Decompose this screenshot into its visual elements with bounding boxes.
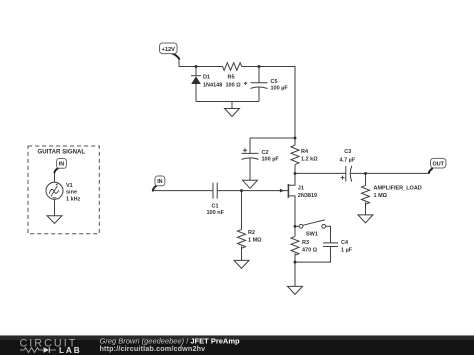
svg-text:4.7 µF: 4.7 µF: [340, 157, 356, 163]
svg-text:100 µF: 100 µF: [262, 157, 280, 163]
svg-text:D1: D1: [203, 75, 210, 81]
svg-text:V1: V1: [66, 183, 73, 189]
svg-text:http://circuitlab.com/cdwn2hv: http://circuitlab.com/cdwn2hv: [100, 344, 206, 353]
svg-text:100 Ω: 100 Ω: [226, 82, 242, 88]
svg-text:R3: R3: [302, 240, 309, 246]
svg-text:AMPLIFIER_LOAD: AMPLIFIER_LOAD: [374, 185, 422, 191]
svg-text:OUT: OUT: [433, 162, 445, 168]
svg-text:100 µF: 100 µF: [271, 86, 289, 92]
svg-text:IN: IN: [59, 162, 64, 168]
svg-text:1 MΩ: 1 MΩ: [248, 238, 262, 244]
svg-text:1 µF: 1 µF: [341, 248, 353, 254]
svg-text:J1: J1: [298, 186, 304, 192]
svg-text:SW1: SW1: [306, 231, 318, 237]
svg-text:+12V: +12V: [162, 47, 175, 53]
svg-text:LAB: LAB: [59, 346, 82, 355]
svg-text:R4: R4: [301, 149, 309, 155]
svg-text:IN: IN: [157, 179, 162, 185]
svg-text:470 Ω: 470 Ω: [302, 248, 318, 254]
svg-text:C3: C3: [344, 149, 351, 155]
svg-text:C2: C2: [262, 150, 269, 156]
svg-text:C1: C1: [212, 204, 219, 210]
svg-text:1 MΩ: 1 MΩ: [374, 193, 388, 199]
svg-text:1.2 kΩ: 1.2 kΩ: [301, 157, 318, 163]
svg-text:100 nF: 100 nF: [207, 210, 225, 216]
svg-text:R5: R5: [228, 75, 235, 81]
svg-text:1N4148: 1N4148: [203, 82, 222, 88]
svg-text:C5: C5: [271, 79, 278, 85]
svg-text:R2: R2: [248, 230, 255, 236]
svg-text:C4: C4: [341, 240, 349, 246]
svg-text:sine: sine: [66, 190, 77, 196]
svg-text:2N3819: 2N3819: [298, 193, 317, 199]
svg-text:GUITAR SIGNAL: GUITAR SIGNAL: [38, 149, 86, 156]
svg-text:1 kHz: 1 kHz: [66, 197, 81, 203]
